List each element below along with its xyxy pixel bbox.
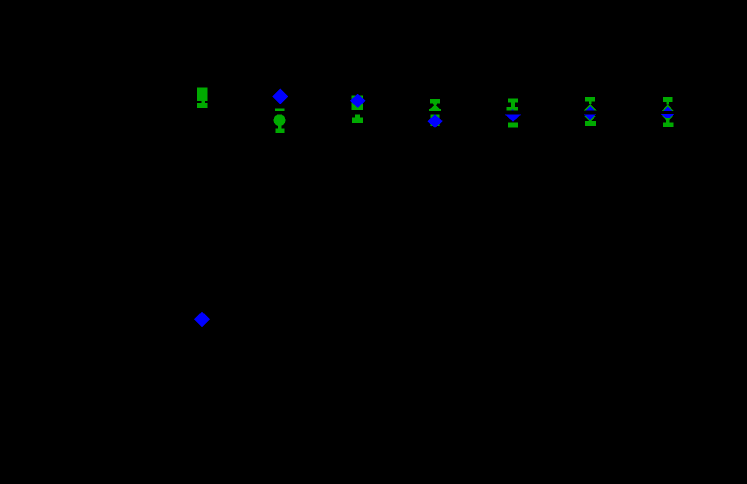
blue series point 2 diamond [272, 89, 288, 105]
green series point 7 stem [667, 102, 670, 104]
green series point 4 lower block [430, 114, 439, 126]
green series point 1 upper block [197, 88, 207, 109]
green series point 5 bottom cap [508, 122, 518, 127]
blue series point 6 triangle-up [586, 106, 595, 111]
green series point 7 lower stem [666, 118, 670, 123]
green series point 3 lower wide block [352, 117, 363, 122]
green series point 4 hourglass marker [430, 103, 440, 108]
green series point 4 top cap [430, 99, 440, 103]
green series point 7 triangle-up [662, 105, 675, 112]
blue series point 7 triangle-down [661, 114, 675, 120]
blue series point 5 cap tip [511, 109, 513, 110]
green series point 5 stem [511, 103, 515, 108]
green series point 2 stem [278, 126, 282, 129]
green series point 6 triangle-up [584, 104, 597, 111]
green series point 6 lower triangle-down [585, 116, 596, 122]
blue series point 3 diamond [350, 94, 366, 108]
blue series point 5 triangle-down [505, 115, 521, 122]
green series point 7 lower triangle-down [662, 116, 673, 123]
blue series outlier diamond [194, 312, 210, 327]
green series point 3 block [352, 96, 363, 110]
green series point 5 flare cap [507, 107, 518, 111]
green series point 6 stem [589, 102, 592, 104]
green series point 7 bottom cap [663, 123, 674, 128]
green series point 7 top cap [663, 97, 673, 102]
green series point 2 bottom cap [275, 129, 284, 133]
blue series point 6 triangle-down [584, 114, 597, 120]
green series point 2 top cap [275, 108, 285, 111]
blue series point 7 triangle-up [663, 107, 673, 112]
green series point 3 lower small square [355, 114, 360, 117]
blue series point 4 diamond [427, 115, 443, 128]
green series point 6 top cap [585, 97, 595, 101]
green series point 5 top cap [508, 99, 518, 103]
green series point 6 bottom cap [585, 121, 596, 126]
green series point 4 middle bar [429, 109, 441, 111]
green series point 2 circle marker [274, 114, 286, 126]
